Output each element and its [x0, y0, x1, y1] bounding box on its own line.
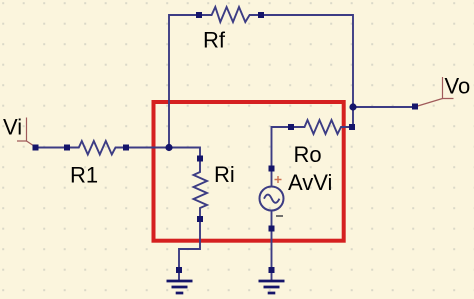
svg-text:AvVi: AvVi	[288, 170, 332, 195]
svg-text:Ro: Ro	[294, 142, 322, 167]
svg-text:Ri: Ri	[214, 162, 235, 187]
svg-text:Vo: Vo	[445, 74, 471, 99]
svg-text:Vi: Vi	[3, 115, 22, 140]
svg-text:R1: R1	[70, 162, 98, 187]
svg-text:Rf: Rf	[203, 28, 226, 53]
